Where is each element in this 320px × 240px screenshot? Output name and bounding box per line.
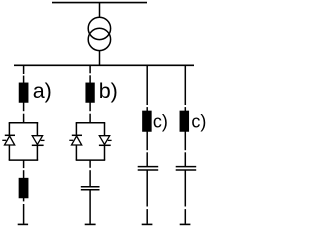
- terminal bar branch c1: [142, 223, 153, 225]
- wire: branch a feed segment 1: [23, 65, 25, 74]
- thyristor V3 gate lead: [69, 139, 73, 141]
- wire: transformer primary lead: [99, 3, 101, 17]
- wire: branch b below box segment 1: [89, 160, 91, 168]
- svg-text:c): c): [191, 111, 206, 131]
- capacitor C1 bottom plate: [81, 189, 100, 191]
- reactor L2 (branch a lower, filled): [19, 179, 27, 198]
- svg-text:a): a): [33, 79, 52, 103]
- wire: valve b right leg upper: [104, 123, 106, 136]
- wire: branch b tail: [89, 190, 91, 223]
- capacitor C2 top plate: [138, 166, 159, 168]
- valve box b bottom bar: [76, 159, 106, 161]
- wire: branch a below box segment 1: [23, 160, 25, 168]
- thyristor V3 triangle (up): [72, 136, 82, 145]
- wire: branch b mid segment 2: [89, 114, 91, 123]
- reactor L1 (branch a, filled): [20, 83, 28, 102]
- valve box a bottom bar: [9, 159, 39, 161]
- wire: valve a left leg lower: [8, 145, 10, 160]
- thyristor V1 cathode bar: [5, 134, 15, 136]
- wire: branch c2 feed segment 2: [184, 107, 186, 111]
- wire: valve a left leg upper: [8, 123, 10, 135]
- wire: branch b feed segment 2: [89, 75, 91, 83]
- capacitor C3 top plate: [176, 166, 197, 168]
- valve box a top bar: [9, 122, 39, 124]
- wire: transformer secondary lead: [99, 51, 101, 66]
- thyristor V4 gate lead: [108, 139, 112, 141]
- wire: branch c1 tail segment 1: [146, 171, 148, 207]
- transformer T1 upper winding: [88, 17, 110, 39]
- thyristor V1 gate lead: [2, 139, 6, 141]
- bus: LV busbar: [14, 64, 194, 66]
- thyristor V2 cathode bar: [32, 144, 44, 146]
- wire: branch a below box segment 2: [23, 170, 25, 178]
- thyristor V1 triangle (up): [5, 136, 15, 145]
- wire: branch c2 feed segment 1: [184, 65, 186, 105]
- wire: branch a mid segment 2: [23, 114, 25, 123]
- wire: branch b below box segment 2: [89, 170, 91, 186]
- wire: branch c1 feed segment 2: [146, 107, 148, 111]
- reactor L4 (branch c1, filled): [143, 111, 151, 131]
- wire: valve b left leg upper: [75, 123, 77, 135]
- wire: branch b mid segment 1: [89, 102, 91, 111]
- terminal bar branch b: [85, 223, 96, 225]
- thyristor V2 triangle (down): [32, 136, 42, 145]
- wire: branch c1 mid segment 2: [146, 152, 148, 166]
- svg-text:b): b): [99, 79, 118, 103]
- wire: branch c2 tail segment 2: [184, 209, 186, 224]
- valve box b top bar: [76, 122, 106, 124]
- thyristor V2 gate lead: [41, 139, 45, 141]
- wire: valve a right leg upper: [36, 123, 38, 136]
- wire: branch a feed segment 2: [23, 76, 25, 84]
- capacitor C2 bottom plate: [138, 169, 159, 171]
- reactor L3 (branch b, filled): [86, 83, 94, 102]
- wire: branch a tail segment 2: [23, 204, 25, 224]
- capacitor C1 top plate: [81, 186, 100, 188]
- reactor L5 (branch c2, filled): [180, 111, 188, 131]
- thyristor V4 cathode bar: [99, 144, 111, 146]
- terminal bar branch c2: [180, 223, 191, 225]
- wire: branch a tail segment 1: [23, 198, 25, 202]
- wire: branch a mid segment 1: [23, 102, 25, 111]
- wire: valve a right leg lower: [36, 146, 38, 160]
- wire: valve b left leg lower: [75, 145, 77, 160]
- wire: branch c1 mid segment 1: [146, 131, 148, 150]
- wire: branch c2 mid segment 2: [184, 152, 186, 166]
- wire: branch c2 mid segment 1: [184, 131, 186, 150]
- capacitor C3 bottom plate: [176, 169, 197, 171]
- wire: branch c1 feed segment 1: [146, 65, 148, 105]
- wire: branch c2 tail segment 1: [184, 171, 186, 207]
- transformer T1 lower winding: [88, 28, 110, 50]
- wire: valve b right leg lower: [104, 146, 106, 160]
- wire: branch c1 tail segment 2: [146, 209, 148, 224]
- thyristor V3 cathode bar: [72, 134, 82, 136]
- wire: HV source line at top: [52, 2, 147, 4]
- wire: branch b feed segment 1: [89, 65, 91, 73]
- svg-text:c): c): [153, 111, 168, 131]
- thyristor V4 triangle (down): [99, 136, 109, 145]
- terminal bar branch a: [18, 223, 28, 225]
